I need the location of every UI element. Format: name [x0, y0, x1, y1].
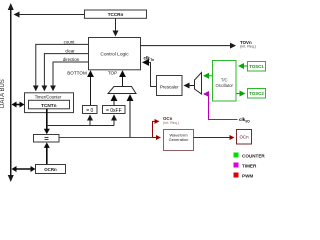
svg-text:PWM: PWM: [242, 174, 253, 179]
svg-text:direction: direction: [63, 57, 80, 62]
svg-text:OCRn: OCRn: [44, 167, 57, 172]
svg-text:TCNTn: TCNTn: [41, 103, 56, 108]
svg-text:clear: clear: [65, 49, 75, 54]
svg-text:OCn: OCn: [239, 135, 249, 140]
svg-text:Control Logic: Control Logic: [100, 52, 129, 58]
svg-text:(Int. Req.): (Int. Req.): [163, 121, 179, 125]
svg-text:Timer/Counter: Timer/Counter: [35, 94, 62, 99]
svg-text:Generation: Generation: [169, 137, 189, 142]
svg-text:TOSC1: TOSC1: [249, 64, 264, 69]
svg-text:count: count: [64, 39, 76, 44]
svg-text:= 0xFF: = 0xFF: [106, 108, 122, 114]
svg-text:I/O: I/O: [246, 119, 251, 123]
svg-text:BOTTOM: BOTTOM: [67, 71, 87, 76]
svg-text:TOSC2: TOSC2: [249, 91, 264, 96]
svg-text:COUNTER: COUNTER: [242, 154, 265, 159]
svg-text:TIMER: TIMER: [242, 164, 257, 169]
svg-text:TOP: TOP: [108, 71, 117, 76]
svg-text:= 0: = 0: [86, 108, 93, 114]
svg-text:(Int. Req.): (Int. Req.): [240, 44, 256, 48]
svg-text:Prescaler: Prescaler: [160, 84, 179, 89]
svg-text:DATA BUS: DATA BUS: [0, 79, 6, 108]
svg-text:T/C: T/C: [221, 78, 228, 83]
svg-text:Tn: Tn: [150, 58, 154, 62]
svg-text:Oscillator: Oscillator: [215, 83, 233, 88]
svg-text:TCCRn: TCCRn: [108, 12, 124, 17]
